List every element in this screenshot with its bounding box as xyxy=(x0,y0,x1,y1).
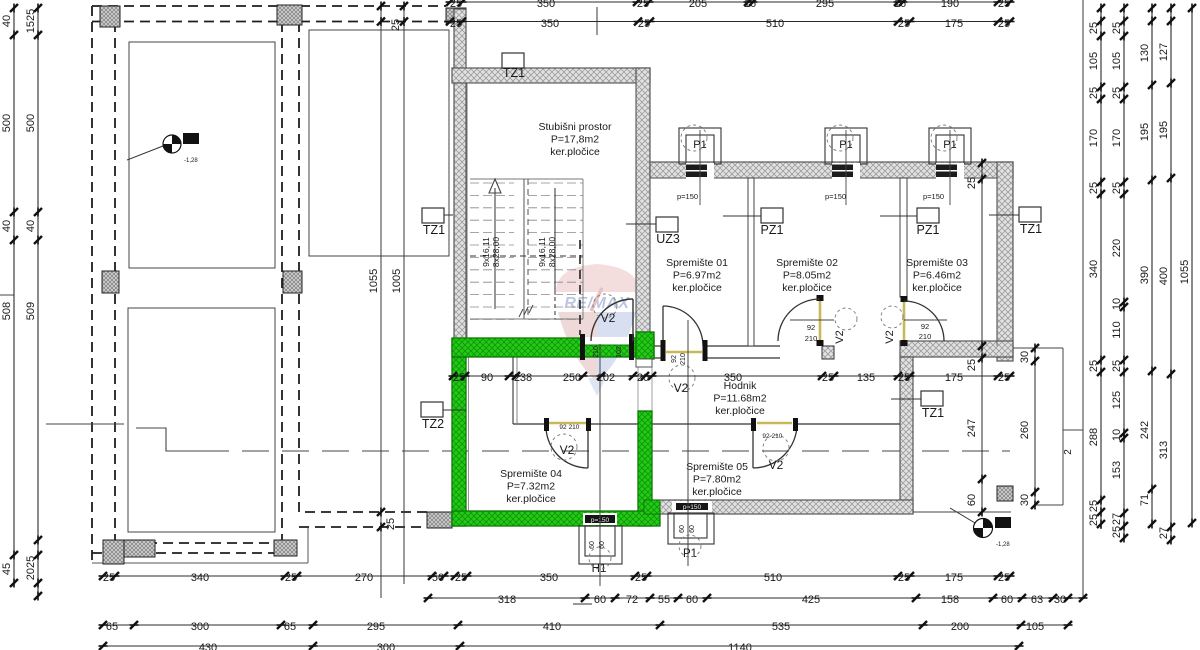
svg-text:25: 25 xyxy=(998,572,1010,584)
svg-text:170: 170 xyxy=(1111,129,1123,147)
svg-text:55: 55 xyxy=(658,594,670,606)
svg-text:25: 25 xyxy=(638,18,650,30)
svg-text:158: 158 xyxy=(941,594,959,606)
svg-text:Spremište 02: Spremište 02 xyxy=(776,257,838,269)
svg-text:16: 16 xyxy=(894,0,906,10)
svg-text:210: 210 xyxy=(772,433,783,440)
svg-text:250: 250 xyxy=(563,372,581,384)
svg-text:Spremište 04: Spremište 04 xyxy=(500,468,562,480)
svg-text:175: 175 xyxy=(945,572,963,584)
svg-text:1525: 1525 xyxy=(25,9,37,33)
svg-text:25: 25 xyxy=(390,19,402,31)
svg-text:TZ1: TZ1 xyxy=(503,66,525,80)
svg-text:P=7.80m2: P=7.80m2 xyxy=(693,474,741,486)
svg-text:72: 72 xyxy=(626,594,638,606)
svg-text:45: 45 xyxy=(1,563,13,575)
svg-text:110: 110 xyxy=(1111,321,1123,339)
svg-text:92: 92 xyxy=(762,433,770,440)
svg-text:270: 270 xyxy=(355,572,373,584)
svg-text:2025: 2025 xyxy=(25,556,37,580)
svg-text:Spremište 05: Spremište 05 xyxy=(686,461,748,473)
svg-text:16: 16 xyxy=(744,0,756,10)
svg-text:25: 25 xyxy=(1111,22,1123,34)
svg-text:TZ2: TZ2 xyxy=(422,417,444,431)
svg-text:135: 135 xyxy=(857,372,875,384)
svg-text:71: 71 xyxy=(1139,494,1151,506)
svg-text:60: 60 xyxy=(686,594,698,606)
svg-text:210: 210 xyxy=(805,334,818,343)
svg-text:400: 400 xyxy=(1158,267,1170,285)
svg-text:V2: V2 xyxy=(674,381,689,395)
svg-text:340: 340 xyxy=(1088,260,1100,278)
svg-text:210: 210 xyxy=(680,353,687,365)
svg-text:60: 60 xyxy=(594,594,606,606)
svg-text:25: 25 xyxy=(1088,22,1100,34)
svg-text:25: 25 xyxy=(822,372,834,384)
svg-text:295: 295 xyxy=(816,0,834,10)
svg-text:25: 25 xyxy=(1088,500,1100,512)
svg-text:p=150: p=150 xyxy=(677,192,698,201)
svg-text:127: 127 xyxy=(1158,43,1170,61)
svg-text:60: 60 xyxy=(589,541,596,549)
svg-text:210: 210 xyxy=(919,332,932,341)
svg-text:1055: 1055 xyxy=(368,269,380,293)
svg-text:90: 90 xyxy=(481,372,493,384)
svg-text:25: 25 xyxy=(1088,360,1100,372)
svg-text:25: 25 xyxy=(1088,182,1100,194)
svg-text:ker.pločice: ker.pločice xyxy=(550,146,600,158)
svg-text:25: 25 xyxy=(998,0,1010,10)
svg-text:175: 175 xyxy=(945,18,963,30)
svg-text:102: 102 xyxy=(597,372,615,384)
svg-text:300: 300 xyxy=(191,621,209,633)
svg-text:1055: 1055 xyxy=(1179,260,1191,284)
svg-text:220: 220 xyxy=(1111,239,1123,257)
svg-text:25: 25 xyxy=(898,572,910,584)
svg-text:340: 340 xyxy=(191,572,209,584)
svg-text:PZ1: PZ1 xyxy=(917,223,940,237)
svg-text:350: 350 xyxy=(537,0,555,10)
svg-text:125: 125 xyxy=(1111,391,1123,409)
svg-text:Spremište 03: Spremište 03 xyxy=(906,257,968,269)
svg-text:p=150: p=150 xyxy=(923,192,944,201)
svg-text:20: 20 xyxy=(637,372,649,384)
svg-text:288: 288 xyxy=(1088,428,1100,446)
svg-text:V2: V2 xyxy=(834,330,846,343)
svg-text:P1: P1 xyxy=(683,548,697,560)
svg-text:8x28,00: 8x28,00 xyxy=(547,237,557,268)
svg-text:410: 410 xyxy=(543,621,561,633)
svg-text:50: 50 xyxy=(432,572,444,584)
svg-text:247: 247 xyxy=(966,419,978,437)
svg-text:30: 30 xyxy=(1019,351,1031,363)
svg-text:190: 190 xyxy=(941,0,959,10)
svg-text:9x16,11: 9x16,11 xyxy=(481,237,491,267)
svg-text:P=6.97m2: P=6.97m2 xyxy=(673,270,721,282)
svg-text:175: 175 xyxy=(945,372,963,384)
svg-text:Spremište 01: Spremište 01 xyxy=(666,257,728,269)
svg-text:238: 238 xyxy=(514,372,532,384)
svg-text:27: 27 xyxy=(1158,527,1170,539)
svg-text:8x28,00: 8x28,00 xyxy=(491,237,501,268)
svg-text:195: 195 xyxy=(1139,123,1151,141)
svg-text:300: 300 xyxy=(377,642,395,650)
svg-text:92: 92 xyxy=(921,322,929,331)
svg-text:V2: V2 xyxy=(560,443,575,457)
svg-text:40: 40 xyxy=(1,220,13,232)
svg-text:92: 92 xyxy=(807,323,815,332)
svg-text:p=150: p=150 xyxy=(683,504,702,511)
svg-text:25: 25 xyxy=(385,518,397,530)
svg-text:ker.pločice: ker.pločice xyxy=(672,282,722,294)
svg-text:60: 60 xyxy=(679,525,686,533)
svg-text:25: 25 xyxy=(1088,514,1100,526)
svg-text:25: 25 xyxy=(1111,182,1123,194)
svg-text:102: 102 xyxy=(616,346,623,358)
svg-text:2: 2 xyxy=(1063,449,1074,455)
svg-text:ker.pločice: ker.pločice xyxy=(782,282,832,294)
svg-text:65: 65 xyxy=(284,621,296,633)
svg-text:350: 350 xyxy=(724,372,742,384)
svg-text:UZ3: UZ3 xyxy=(656,232,680,246)
svg-text:25: 25 xyxy=(966,177,978,189)
svg-text:318: 318 xyxy=(498,594,516,606)
svg-text:Stubišni prostor: Stubišni prostor xyxy=(539,121,612,133)
svg-text:535: 535 xyxy=(772,621,790,633)
svg-text:210: 210 xyxy=(569,424,580,431)
svg-text:105: 105 xyxy=(1026,621,1044,633)
svg-text:500: 500 xyxy=(1,114,13,132)
svg-text:510: 510 xyxy=(764,572,782,584)
svg-text:25: 25 xyxy=(998,372,1010,384)
svg-text:350: 350 xyxy=(540,572,558,584)
svg-text:25: 25 xyxy=(966,359,978,371)
svg-text:ker.pločice: ker.pločice xyxy=(506,493,556,505)
svg-text:390: 390 xyxy=(1139,266,1151,284)
svg-text:25: 25 xyxy=(998,18,1010,30)
svg-text:25: 25 xyxy=(1111,360,1123,372)
svg-text:60: 60 xyxy=(689,525,696,533)
svg-text:25: 25 xyxy=(635,572,647,584)
svg-text:ker.pločice: ker.pločice xyxy=(912,282,962,294)
svg-text:430: 430 xyxy=(199,642,217,650)
svg-text:200: 200 xyxy=(951,621,969,633)
svg-text:p=150: p=150 xyxy=(825,192,846,201)
svg-text:25: 25 xyxy=(450,18,462,30)
svg-text:40: 40 xyxy=(25,220,37,232)
svg-text:210: 210 xyxy=(593,346,600,358)
svg-text:P=8.05m2: P=8.05m2 xyxy=(783,270,831,282)
svg-text:260: 260 xyxy=(1019,421,1031,439)
svg-text:25: 25 xyxy=(637,0,649,10)
svg-text:27: 27 xyxy=(1111,513,1123,525)
svg-text:25: 25 xyxy=(103,572,115,584)
svg-text:205: 205 xyxy=(689,0,707,10)
svg-text:P=11.68m2: P=11.68m2 xyxy=(713,393,766,405)
svg-text:P1: P1 xyxy=(693,139,706,151)
svg-text:425: 425 xyxy=(802,594,820,606)
svg-text:63: 63 xyxy=(1031,594,1043,606)
svg-text:TZ1: TZ1 xyxy=(922,406,944,420)
svg-text:509: 509 xyxy=(25,302,37,320)
svg-text:30: 30 xyxy=(1054,594,1066,606)
svg-text:65: 65 xyxy=(106,621,118,633)
svg-text:P=17,8m2: P=17,8m2 xyxy=(551,134,599,146)
svg-text:60: 60 xyxy=(966,494,978,506)
svg-text:295: 295 xyxy=(367,621,385,633)
svg-text:25: 25 xyxy=(1111,87,1123,99)
svg-text:508: 508 xyxy=(1,302,13,320)
svg-text:105: 105 xyxy=(1111,52,1123,70)
svg-text:9x16,11: 9x16,11 xyxy=(537,237,547,267)
svg-text:25: 25 xyxy=(898,18,910,30)
svg-text:25: 25 xyxy=(455,572,467,584)
svg-text:60: 60 xyxy=(1001,594,1013,606)
svg-text:25: 25 xyxy=(285,572,297,584)
svg-text:500: 500 xyxy=(25,114,37,132)
svg-text:350: 350 xyxy=(541,18,559,30)
svg-text:P1: P1 xyxy=(943,139,956,151)
svg-text:510: 510 xyxy=(766,18,784,30)
svg-text:25: 25 xyxy=(453,372,465,384)
svg-text:10: 10 xyxy=(1111,429,1123,441)
svg-text:25: 25 xyxy=(898,372,910,384)
svg-text:105: 105 xyxy=(1088,52,1100,70)
svg-text:40: 40 xyxy=(1,15,13,27)
svg-text:313: 313 xyxy=(1158,441,1170,459)
svg-text:130: 130 xyxy=(1139,44,1151,62)
svg-text:TZ1: TZ1 xyxy=(1020,222,1042,236)
svg-text:10: 10 xyxy=(1111,298,1123,310)
svg-text:TZ1: TZ1 xyxy=(423,223,445,237)
svg-text:92: 92 xyxy=(559,424,567,431)
svg-text:92: 92 xyxy=(671,355,678,363)
svg-text:30: 30 xyxy=(1019,494,1031,506)
svg-text:1005: 1005 xyxy=(391,269,403,293)
svg-text:153: 153 xyxy=(1111,461,1123,479)
svg-text:25: 25 xyxy=(450,0,462,10)
svg-text:ker.pločice: ker.pločice xyxy=(715,405,765,417)
svg-text:-1,28: -1,28 xyxy=(996,542,1010,548)
svg-text:-1,28: -1,28 xyxy=(184,158,198,164)
svg-text:ker.pločice: ker.pločice xyxy=(692,486,742,498)
svg-text:25: 25 xyxy=(1111,526,1123,538)
svg-text:1140: 1140 xyxy=(728,642,752,650)
svg-text:242: 242 xyxy=(1139,421,1151,439)
svg-text:V2: V2 xyxy=(884,330,896,343)
svg-text:P=6.46m2: P=6.46m2 xyxy=(913,270,961,282)
svg-text:PZ1: PZ1 xyxy=(761,223,784,237)
svg-text:195: 195 xyxy=(1158,121,1170,139)
svg-text:V2: V2 xyxy=(769,458,784,472)
svg-text:P1: P1 xyxy=(839,139,852,151)
svg-text:P=7.32m2: P=7.32m2 xyxy=(507,481,555,493)
svg-text:170: 170 xyxy=(1088,129,1100,147)
svg-text:25: 25 xyxy=(1088,87,1100,99)
svg-text:V2: V2 xyxy=(601,311,616,325)
